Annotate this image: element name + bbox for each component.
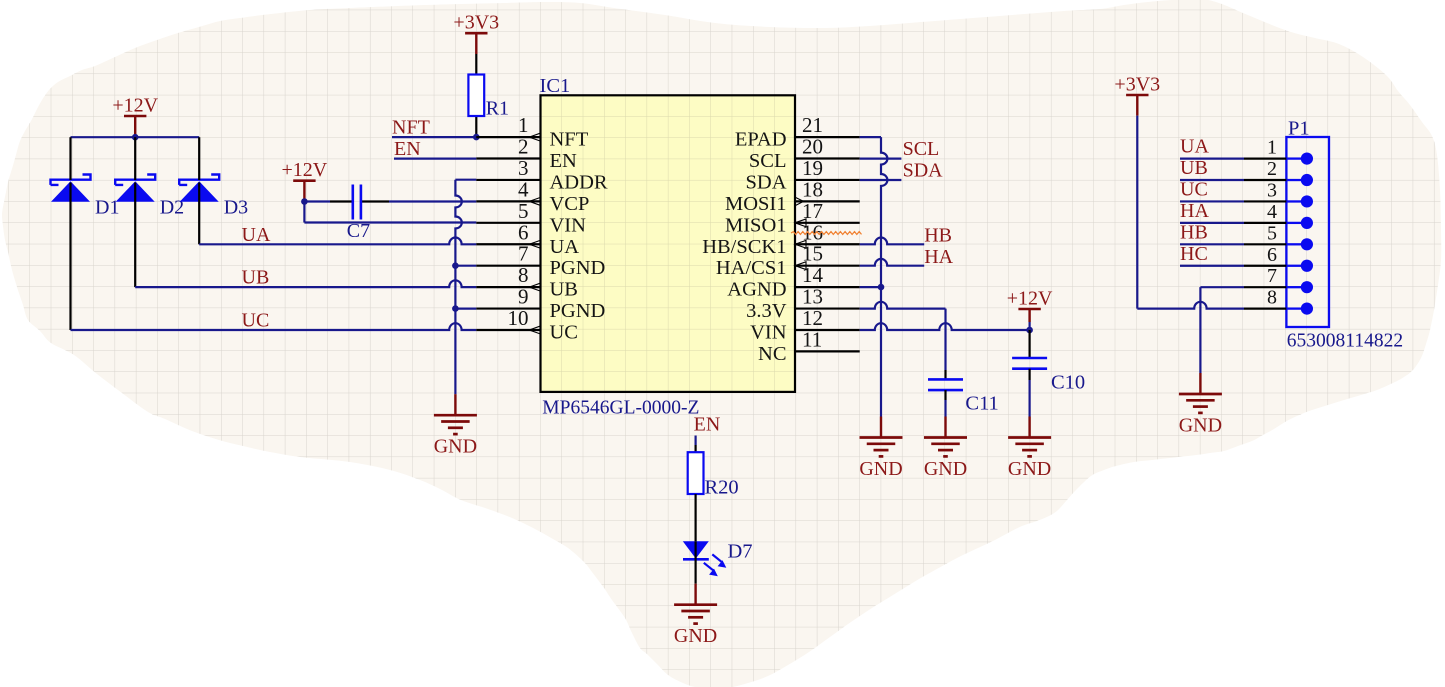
svg-text:2: 2 (1267, 158, 1277, 180)
IC1 pin 6 (UA) stub (476, 240, 540, 248)
label P1 (1288, 118, 1310, 140)
connector P1 box (1286, 137, 1329, 327)
svg-text:18: 18 (802, 177, 823, 201)
pin number 21 (802, 113, 823, 137)
capacitor C7 (353, 185, 361, 220)
net label UC (242, 309, 270, 331)
pin name VIN (550, 214, 587, 236)
power +12V (at C7) (282, 159, 328, 201)
pin number 18 (802, 177, 823, 201)
svg-text:C11: C11 (965, 393, 998, 415)
svg-text:20: 20 (802, 135, 823, 159)
pin number 11 (802, 327, 822, 351)
P1 pin 5 stub (1244, 238, 1313, 250)
svg-text:IC1: IC1 (540, 75, 571, 97)
IC1 pin 14 (AGND) stub (795, 286, 860, 288)
svg-text:UB: UB (550, 279, 578, 301)
label R1 (486, 98, 509, 120)
svg-text:7: 7 (518, 242, 529, 266)
svg-text:HA: HA (1180, 200, 1209, 222)
wire P1 pin7 to GND (1200, 287, 1244, 373)
wire net UB (left) (135, 280, 476, 287)
junction PGND pin9 (452, 305, 459, 312)
net label SDA (903, 160, 944, 182)
wire net HB (860, 238, 925, 245)
svg-text:MP6546GL-0000-Z: MP6546GL-0000-Z (542, 398, 699, 419)
capacitor C10 (1012, 358, 1047, 369)
wire PGND pin9 jumper (455, 308, 476, 310)
wire net HA (860, 259, 925, 266)
svg-text:13: 13 (802, 285, 823, 309)
svg-text:GND: GND (1179, 415, 1222, 437)
wire net HC (P1) (1180, 265, 1244, 267)
svg-text:EPAD: EPAD (735, 129, 787, 151)
svg-text:4: 4 (1267, 201, 1277, 223)
pin name SDA (745, 171, 786, 193)
svg-text:8: 8 (1267, 287, 1277, 309)
svg-text:14: 14 (802, 263, 824, 287)
wire net UA (P1) (1180, 158, 1244, 160)
pin name VIN (750, 321, 787, 343)
LED D7 pin line through symbol (694, 541, 696, 559)
svg-text:SCL: SCL (903, 138, 940, 160)
svg-text:9: 9 (518, 285, 529, 309)
svg-text:NC: NC (758, 343, 786, 365)
pin number 16 (802, 220, 823, 244)
pin name SCL (749, 150, 787, 172)
wire net HB (P1) (1180, 243, 1244, 245)
IC1 pin 1 (NFT) stub (476, 133, 540, 141)
svg-text:10: 10 (508, 306, 529, 330)
value label 653008114822 (1287, 331, 1403, 352)
svg-text:UA: UA (1180, 136, 1209, 158)
ground GND (C10) (1008, 417, 1051, 481)
wire +3V3 to P1 pin 8 (1137, 116, 1244, 309)
pin name MISO1 (725, 214, 787, 236)
svg-text:5: 5 (1267, 222, 1277, 244)
svg-text:+3V3: +3V3 (1114, 73, 1160, 95)
diode D3 (TVS, cathode up) (179, 175, 219, 202)
pin number 2 (518, 135, 529, 159)
wire D7 to GND (694, 559, 696, 583)
resistor R1 (468, 75, 484, 117)
pin name PGND (550, 257, 606, 279)
IC1 pin 4 (VCP) stub (476, 197, 540, 205)
pin name UA (550, 236, 580, 258)
svg-text:6: 6 (1267, 244, 1277, 266)
svg-text:PGND: PGND (550, 300, 606, 322)
net label UC (P1) (1180, 178, 1208, 200)
IC1 pin 9 (PGND) stub (476, 307, 540, 309)
P1 pin number 1 (1267, 137, 1277, 159)
svg-text:15: 15 (802, 242, 823, 266)
svg-text:D2: D2 (160, 197, 184, 219)
svg-text:GND: GND (924, 458, 967, 480)
svg-text:ADDR: ADDR (550, 171, 608, 193)
svg-text:PGND: PGND (550, 257, 606, 279)
power +12V (over D2) (112, 94, 158, 137)
svg-text:GND: GND (434, 436, 477, 458)
svg-text:GND: GND (674, 625, 717, 647)
svg-text:19: 19 (802, 156, 823, 180)
svg-text:C10: C10 (1051, 372, 1085, 394)
svg-text:HB/SCK1: HB/SCK1 (702, 236, 786, 258)
pin name PGND (550, 300, 606, 322)
label D2 (160, 197, 184, 219)
pin number 8 (518, 263, 529, 287)
wire net UB (P1) (1180, 179, 1244, 181)
net label HA (P1) (1180, 200, 1209, 222)
IC1 pin 12 (VIN) stub (795, 329, 860, 331)
svg-text:SDA: SDA (903, 160, 944, 182)
svg-text:8: 8 (518, 263, 529, 287)
ground GND (left) (434, 394, 477, 458)
IC1 pin 11 (NC) stub (795, 350, 860, 352)
wire +12V bus over diodes (71, 136, 200, 138)
svg-text:5: 5 (518, 199, 529, 223)
net label HB (P1) (1180, 221, 1208, 243)
svg-text:+12V: +12V (282, 159, 328, 181)
label R20 (705, 477, 739, 499)
diode D1 pin wires (69, 137, 71, 330)
pin name AGND (727, 279, 786, 301)
svg-text:EN: EN (694, 414, 721, 436)
junction AGND (878, 284, 885, 291)
P1 pin number 3 (1267, 179, 1277, 201)
label D7 (728, 541, 753, 563)
net label SCL (903, 138, 940, 160)
svg-text:1: 1 (1267, 137, 1277, 159)
svg-text:VIN: VIN (750, 321, 787, 343)
svg-text:HB: HB (924, 224, 952, 246)
svg-text:7: 7 (1267, 265, 1277, 287)
junction PGND pin7 (452, 262, 459, 269)
label C7 (347, 220, 370, 242)
IC1 pin 7 (PGND) stub (476, 265, 540, 267)
pin name NFT (550, 129, 589, 151)
pin name NC (758, 343, 786, 365)
label IC1 (540, 75, 571, 97)
pin name ADDR (550, 171, 608, 193)
svg-text:653008114822: 653008114822 (1287, 331, 1403, 352)
pin name UC (550, 321, 578, 343)
label C11 (965, 393, 998, 415)
pin name EN (550, 150, 578, 172)
svg-text:AGND: AGND (727, 279, 786, 301)
pin name MOSI1 (725, 193, 787, 215)
IC1 pin 2 (EN) stub (476, 157, 540, 159)
junction VIN/+12V/C10 (1026, 327, 1033, 334)
net label UA (242, 224, 271, 246)
pin number 13 (802, 285, 823, 309)
svg-text:D1: D1 (95, 197, 119, 219)
resistor R20 (688, 452, 704, 494)
wire R20 to D7 (694, 494, 696, 541)
svg-text:NFT: NFT (392, 117, 430, 139)
svg-text:UA: UA (550, 236, 580, 258)
IC1 pin 19 (SDA) stub (795, 179, 860, 181)
LED D7 (683, 541, 727, 576)
IC1 pin 16 (HB/SCK1) stub (795, 240, 860, 248)
pin number 19 (802, 156, 823, 180)
wire net HA (P1) (1180, 222, 1244, 224)
svg-text:UA: UA (242, 224, 271, 246)
pin number 20 (802, 135, 823, 159)
svg-text:+12V: +12V (1007, 287, 1053, 309)
svg-text:1: 1 (518, 113, 529, 137)
svg-text:+12V: +12V (112, 94, 158, 116)
svg-text:HC: HC (1180, 243, 1208, 265)
diode D2 pin wires (134, 137, 136, 287)
svg-text:GND: GND (859, 458, 902, 480)
svg-text:UC: UC (550, 321, 578, 343)
wire VIN net (left, L-shape) (304, 202, 476, 223)
svg-text:HB: HB (1180, 221, 1208, 243)
pin name HA/CS1 (716, 257, 787, 279)
IC1 pin 18 (MOSI1) stub (795, 197, 860, 206)
capacitor C11 (928, 379, 963, 390)
diode D2 (TVS, cathode up) (115, 175, 155, 202)
wire net SCL (860, 158, 902, 160)
net label EN (R20) (694, 414, 721, 436)
pin number 6 (518, 220, 529, 244)
svg-text:UB: UB (242, 266, 270, 288)
wire net UC (left) (71, 323, 477, 330)
net label NFT (392, 117, 430, 139)
svg-text:21: 21 (802, 113, 823, 137)
pin number 15 (802, 242, 823, 266)
net label HC (P1) (1180, 243, 1208, 265)
wire C10 to GND (1028, 369, 1030, 417)
svg-text:SCL: SCL (749, 150, 787, 172)
IC1 pin 3 (ADDR) stub (476, 179, 540, 181)
wire EPAD to GND vertical (860, 137, 888, 416)
svg-text:NFT: NFT (550, 129, 589, 151)
wire net SDA (860, 179, 902, 181)
power +3V3 (R1) (453, 12, 499, 54)
svg-text:12: 12 (802, 306, 823, 330)
svg-text:UC: UC (242, 309, 270, 331)
net label EN (394, 138, 421, 160)
IC1 pin 13 (3.3V) stub (795, 307, 860, 309)
wire net UC (P1) (1180, 200, 1244, 202)
pin name HB/SCK1 (702, 236, 786, 258)
pin number 4 (518, 177, 529, 201)
P1 pin 2 stub (1244, 174, 1313, 186)
svg-text:P1: P1 (1288, 118, 1310, 140)
pin number 7 (518, 242, 529, 266)
IC1 pin 10 (UC) stub (476, 326, 540, 334)
wire C11 to GND (944, 390, 946, 416)
IC1 pin 8 (UB) stub (476, 283, 540, 291)
label D1 (95, 197, 119, 219)
label D3 (224, 197, 248, 219)
wire net EN (394, 158, 476, 160)
wire AGND (860, 286, 881, 288)
wire net NFT (392, 136, 476, 138)
net label UB (P1) (1180, 157, 1208, 179)
IC1 pin 15 (HA/CS1) stub (795, 262, 860, 270)
P1 pin 4 stub (1244, 217, 1313, 229)
ground GND (C11) (924, 417, 967, 481)
svg-text:3: 3 (1267, 179, 1277, 201)
pin number 14 (802, 263, 824, 287)
IC1 pin 20 (SCL) stub (795, 157, 860, 159)
pin number 12 (802, 306, 823, 330)
svg-text:D7: D7 (728, 541, 753, 563)
label C10 (1051, 372, 1085, 394)
ground GND (EPAD/AGND) (859, 417, 902, 481)
pin name VCP (550, 193, 590, 215)
svg-text:6: 6 (518, 220, 529, 244)
pin number 17 (802, 199, 823, 223)
wire +12V node to C10 (1028, 330, 1030, 358)
net label UA (P1) (1180, 136, 1209, 158)
svg-text:HA: HA (924, 246, 953, 268)
wire ADDR/PGND to GND vertical (455, 180, 476, 395)
wire PGND pin7 jumper (455, 265, 476, 267)
net label HA (924, 246, 953, 268)
svg-text:R20: R20 (705, 477, 739, 499)
P1 pin number 7 (1267, 265, 1277, 287)
svg-text:D3: D3 (224, 197, 248, 219)
svg-text:11: 11 (802, 327, 822, 351)
svg-text:MISO1: MISO1 (725, 214, 787, 236)
junction +12V/D2 (132, 134, 139, 141)
P1 pin number 4 (1267, 201, 1277, 223)
wire VIN (right) to +12V node (860, 323, 1030, 330)
P1 pin 7 stub (1244, 281, 1313, 293)
IC1 pin 17 (MISO1) stub (795, 219, 860, 227)
net label UB (242, 266, 270, 288)
svg-text:17: 17 (802, 199, 823, 223)
svg-text:+3V3: +3V3 (453, 12, 499, 34)
P1 pin 1 stub (1244, 153, 1313, 165)
P1 pin 8 stub (1244, 303, 1313, 315)
wire net UA (left) (199, 237, 476, 244)
svg-text:SDA: SDA (745, 171, 786, 193)
P1 pin number 8 (1267, 287, 1277, 309)
diode D1 (TVS, cathode up) (51, 175, 91, 202)
orange ERC squiggle on pin 16 (791, 232, 862, 235)
IC1 pin 21 (EPAD) stub (795, 136, 860, 138)
value label MP6546GL-0000-Z (542, 398, 699, 419)
P1 pin 6 stub (1244, 260, 1313, 272)
junction NFT/R1 (473, 134, 480, 141)
IC IC1 outline (541, 95, 796, 392)
pin number 3 (518, 156, 529, 180)
P1 pin number 2 (1267, 158, 1277, 180)
svg-text:EN: EN (550, 150, 578, 172)
ground GND (P1) (1179, 373, 1222, 437)
wire 3.3V to C11 (860, 302, 946, 380)
pin number 1 (518, 113, 529, 137)
ground GND (D7) (674, 584, 717, 648)
svg-text:2: 2 (518, 135, 529, 159)
pin name EPAD (735, 129, 787, 151)
svg-text:R1: R1 (486, 98, 509, 120)
pin number 9 (518, 285, 529, 309)
svg-text:VIN: VIN (550, 214, 587, 236)
P1 pin number 6 (1267, 244, 1277, 266)
power +3V3 (P1) (1114, 73, 1160, 115)
IC1 pin 5 (VIN) stub (476, 222, 540, 224)
svg-text:HA/CS1: HA/CS1 (716, 257, 787, 279)
wire EN to R20 (694, 436, 696, 453)
pin name 3.3V (746, 300, 787, 322)
power +12V (right) (1007, 287, 1053, 330)
P1 pin number 5 (1267, 222, 1277, 244)
svg-text:UB: UB (1180, 157, 1208, 179)
svg-text:EN: EN (394, 138, 421, 160)
net label HB (924, 224, 952, 246)
pin number 5 (518, 199, 529, 223)
resistor R1 pins (475, 54, 477, 137)
svg-text:VCP: VCP (550, 193, 590, 215)
pin number 10 (508, 306, 529, 330)
svg-text:UC: UC (1180, 178, 1208, 200)
wire VCP net (C7 row) (304, 200, 476, 202)
svg-text:4: 4 (518, 177, 529, 201)
pin name UB (550, 279, 578, 301)
IC IC1 body fill (541, 95, 796, 392)
svg-text:3.3V: 3.3V (746, 300, 787, 322)
svg-text:3: 3 (518, 156, 529, 180)
P1 pin 3 stub (1244, 195, 1313, 207)
junction +12V/C7/VIN (301, 198, 308, 205)
svg-text:MOSI1: MOSI1 (725, 193, 787, 215)
svg-text:GND: GND (1008, 458, 1051, 480)
diode D3 pin wires (198, 137, 200, 244)
